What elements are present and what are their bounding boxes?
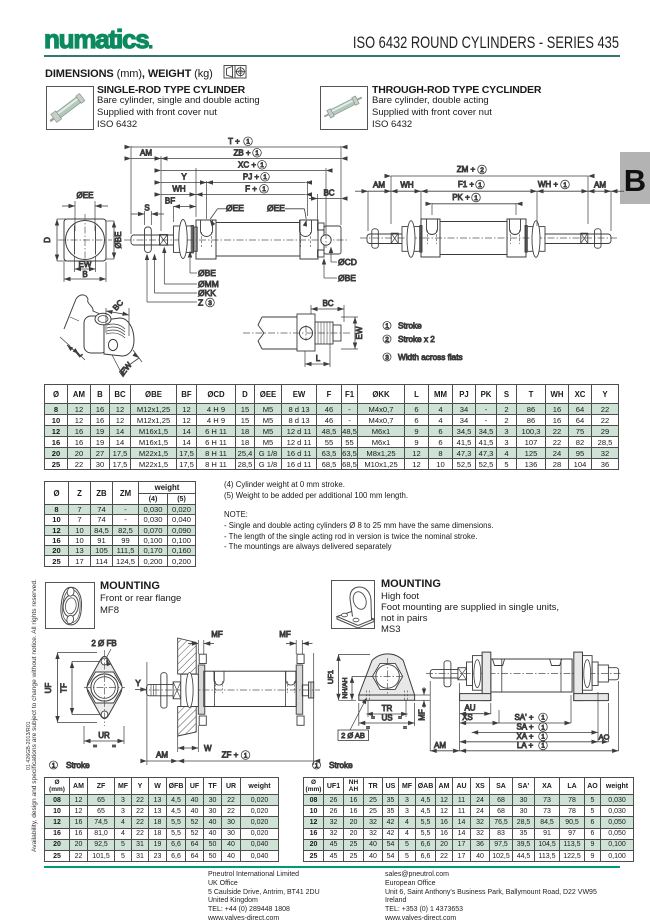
svg-text:ØEE: ØEE — [267, 203, 285, 213]
svg-text:SA +: SA + — [516, 723, 533, 732]
svg-text:AM: AM — [373, 180, 385, 189]
svg-text:ØCD: ØCD — [338, 257, 357, 267]
svg-text:1: 1 — [244, 752, 248, 759]
svg-text:Stroke x 2: Stroke x 2 — [398, 335, 435, 344]
svg-text:1: 1 — [255, 150, 259, 157]
svg-text:ØKK: ØKK — [198, 288, 216, 298]
svg-text:W: W — [204, 744, 212, 753]
svg-text:XA +: XA + — [516, 732, 533, 741]
svg-text:UF1: UF1 — [326, 670, 335, 684]
svg-text:XC +: XC + — [238, 160, 256, 169]
svg-text:AM: AM — [156, 751, 168, 760]
svg-text:ØBE: ØBE — [198, 268, 216, 278]
svg-text:Width across flats: Width across flats — [398, 353, 463, 362]
svg-text:3: 3 — [385, 354, 389, 361]
svg-text:Stroke: Stroke — [398, 321, 422, 330]
svg-text:TR: TR — [382, 704, 393, 713]
svg-text:EW: EW — [355, 326, 364, 339]
svg-text:MF: MF — [279, 630, 291, 639]
svg-text:1: 1 — [315, 762, 319, 769]
svg-text:L: L — [316, 354, 321, 363]
svg-text:UF: UF — [44, 683, 53, 694]
svg-text:AM: AM — [434, 741, 446, 750]
svg-text:2 Ø AB: 2 Ø AB — [341, 731, 365, 740]
svg-text:S: S — [144, 204, 149, 213]
svg-text:ØBE: ØBE — [114, 232, 123, 249]
svg-text:NH/AH: NH/AH — [342, 677, 349, 698]
svg-text:ZF +: ZF + — [222, 751, 239, 760]
svg-text:ØEE: ØEE — [77, 191, 94, 200]
svg-text:Y: Y — [135, 679, 141, 688]
svg-text:UR: UR — [98, 731, 110, 740]
svg-text:AU: AU — [464, 704, 475, 713]
svg-text:1: 1 — [262, 186, 266, 193]
svg-text:2: 2 — [385, 336, 389, 343]
svg-text:MF: MF — [418, 709, 427, 721]
svg-text:PJ +: PJ + — [243, 172, 260, 181]
svg-text:=: = — [403, 726, 407, 732]
svg-text:SA' +: SA' + — [514, 713, 533, 722]
svg-text:1: 1 — [474, 195, 478, 202]
svg-text:=: = — [93, 743, 97, 750]
svg-text:F +: F + — [245, 184, 257, 193]
svg-text:=: = — [398, 716, 402, 722]
svg-text:1: 1 — [385, 323, 389, 330]
svg-text:D: D — [43, 237, 52, 243]
svg-text:AM: AM — [140, 148, 152, 157]
svg-text:XS: XS — [462, 713, 473, 722]
svg-text:=: = — [112, 743, 116, 750]
svg-text:F1 +: F1 + — [458, 180, 475, 189]
svg-text:=: = — [371, 716, 375, 722]
svg-text:ZB +: ZB + — [233, 148, 250, 157]
svg-text:WH +: WH + — [538, 180, 559, 189]
svg-text:1: 1 — [563, 182, 567, 189]
svg-text:1: 1 — [541, 724, 545, 731]
svg-text:ØBE: ØBE — [338, 273, 356, 283]
svg-text:PK +: PK + — [452, 193, 470, 202]
svg-text:AM: AM — [594, 180, 606, 189]
svg-text:BC: BC — [323, 188, 334, 197]
svg-text:ZM +: ZM + — [457, 165, 476, 174]
svg-text:ØEE: ØEE — [226, 203, 244, 213]
svg-text:WH: WH — [172, 184, 186, 193]
svg-text:1: 1 — [260, 162, 264, 169]
svg-text:MF: MF — [211, 630, 223, 639]
svg-text:BF: BF — [165, 196, 175, 205]
svg-text:2 Ø FB: 2 Ø FB — [91, 639, 116, 648]
svg-text:Z: Z — [198, 298, 203, 308]
svg-text:1: 1 — [52, 762, 56, 769]
svg-text:B: B — [82, 270, 87, 279]
svg-text:BC: BC — [322, 299, 333, 308]
svg-text:2: 2 — [480, 167, 484, 174]
svg-text:1: 1 — [541, 715, 545, 722]
svg-text:Stroke: Stroke — [329, 761, 353, 770]
svg-text:Y: Y — [181, 172, 187, 181]
svg-text:1: 1 — [541, 743, 545, 750]
svg-text:US: US — [381, 714, 392, 723]
svg-text:3: 3 — [208, 300, 212, 307]
svg-text:1: 1 — [246, 139, 250, 146]
svg-text:AO: AO — [599, 732, 610, 741]
svg-text:WH: WH — [400, 180, 414, 189]
svg-text:TF: TF — [60, 683, 69, 693]
svg-text:LA +: LA + — [517, 741, 534, 750]
svg-text:1: 1 — [541, 734, 545, 741]
svg-text:T +: T + — [228, 137, 240, 146]
svg-text:1: 1 — [263, 174, 267, 181]
svg-text:EW: EW — [79, 260, 92, 269]
svg-text:Stroke: Stroke — [66, 761, 90, 770]
svg-text:1: 1 — [478, 182, 482, 189]
svg-text:BC: BC — [111, 298, 125, 312]
